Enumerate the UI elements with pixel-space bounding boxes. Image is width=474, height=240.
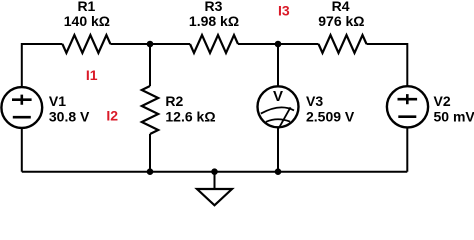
wire node C to R4 — [278, 43, 319, 45]
wire right lower (V2 to bottom corner) — [406, 127, 408, 171]
resistor R1 — [62, 35, 110, 53]
svg-text:V2: V2 — [434, 93, 451, 109]
voltage source V1 — [1, 87, 42, 128]
voltmeter V3 upper scale arc — [261, 107, 294, 113]
svg-text:140 kΩ: 140 kΩ — [64, 13, 110, 29]
voltmeter V3 needle — [279, 107, 291, 128]
wire R4 to top-right corner — [367, 43, 408, 45]
wire V3 branch upper — [277, 44, 279, 86]
svg-text:V1: V1 — [49, 93, 66, 109]
resistor R4 — [319, 35, 367, 53]
ground symbol — [197, 189, 232, 205]
svg-text:2.509 V: 2.509 V — [306, 108, 355, 124]
voltmeter V3 lower scale arc — [266, 119, 290, 122]
wire left upper (top corner to V1) — [21, 43, 23, 87]
wire R1 to node B — [110, 43, 150, 45]
wire bottom rail — [22, 171, 408, 173]
wire R2 branch upper — [149, 44, 151, 86]
svg-text:R2: R2 — [165, 93, 183, 109]
voltage source V2 — [387, 86, 428, 127]
junction node ground — [211, 168, 218, 175]
svg-text:I1: I1 — [86, 67, 98, 83]
svg-text:12.6 kΩ: 12.6 kΩ — [165, 108, 215, 124]
wire V3 branch lower — [277, 128, 279, 172]
V2 minus sign — [398, 115, 416, 118]
wire R2 branch lower — [149, 134, 151, 172]
svg-text:V: V — [273, 88, 283, 105]
resistor R2 — [142, 86, 158, 134]
V1 minus sign — [13, 116, 31, 119]
V2 plus sign — [398, 94, 418, 104]
junction node R2-bottom — [147, 168, 154, 175]
junction node C (R3/V3/R4) — [275, 41, 282, 48]
voltmeter V3 — [258, 86, 299, 127]
svg-text:30.8 V: 30.8 V — [49, 108, 90, 124]
wire right upper (top corner to V2) — [406, 43, 408, 87]
svg-text:976 kΩ: 976 kΩ — [318, 13, 364, 29]
svg-text:1.98 kΩ: 1.98 kΩ — [189, 13, 239, 29]
junction node V3-bottom — [275, 168, 282, 175]
junction node B (R1/R2/R3) — [147, 41, 154, 48]
svg-text:50 mV: 50 mV — [434, 108, 474, 124]
wire node B to R3 — [150, 43, 190, 45]
svg-text:I2: I2 — [106, 107, 118, 123]
wire R3 to node C — [238, 43, 278, 45]
svg-text:I3: I3 — [278, 3, 290, 19]
wire left lower (V1 to bottom corner) — [21, 128, 23, 172]
svg-text:V3: V3 — [306, 93, 323, 109]
resistor R3 — [190, 35, 238, 53]
wire top node A to R1 — [22, 43, 63, 45]
wire ground stem — [214, 172, 216, 189]
V1 plus sign — [12, 95, 32, 105]
